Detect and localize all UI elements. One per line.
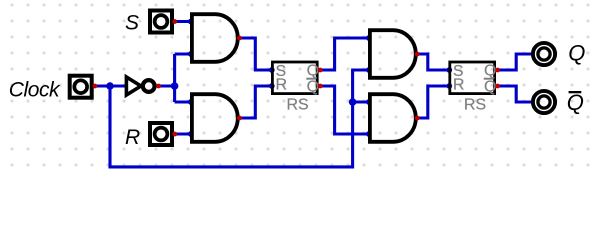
svg-text:Q: Q [484, 63, 496, 80]
and-gate U3 (master Q gating) [370, 30, 416, 78]
wire latch FF1 Qbar to gate U4 lower input [320, 86, 369, 134]
and-gate U1 (S gating) [192, 14, 238, 62]
input pin R [150, 123, 172, 145]
wire end dots at component inputs [188, 19, 452, 137]
input pin Clock [70, 76, 92, 98]
svg-text:Q: Q [567, 90, 584, 115]
latch FF1 (master RS) [272, 62, 319, 114]
wire gate U1 output to latch FF1 S input [239, 38, 271, 70]
wire inverter output to branch node [159, 84, 175, 87]
port dot S pin [172, 19, 177, 24]
input pin S [150, 11, 172, 33]
port dot FF1 Qbar [318, 84, 323, 89]
wire R pin to gate U2 lower input [175, 132, 192, 135]
junction node clock/rail [106, 82, 114, 90]
junction node inverted clock [171, 82, 179, 90]
port dot U2 output [237, 116, 242, 121]
inverter U5 (clock) [126, 77, 154, 95]
port dot R pin [172, 132, 177, 137]
port dot FF1 Q [318, 68, 323, 73]
svg-text:S: S [125, 11, 139, 34]
svg-text:R: R [453, 77, 465, 94]
wire inverted clock vertical branch [173, 54, 176, 102]
svg-text:Q: Q [568, 41, 585, 66]
port dot inverter output [156, 84, 161, 89]
wire inverted clock to gate U1 lower input [175, 52, 192, 55]
svg-text:Q: Q [307, 63, 319, 80]
wire gate U2 output to latch FF1 R input [239, 86, 271, 118]
output pin Q [533, 43, 555, 65]
wire latch FF1 Q to gate U3 upper input [320, 38, 369, 70]
wire latch FF2 Q to output pin Q [498, 54, 532, 70]
wire S pin to gate U1 upper input [175, 20, 192, 23]
port dot FF2 Qbar [495, 84, 500, 89]
svg-text:RS: RS [464, 97, 486, 114]
svg-text:R: R [276, 77, 288, 94]
port dot FF2 Q [495, 68, 500, 73]
svg-text:Q: Q [484, 79, 496, 96]
wire latch FF2 Qbar to output pin Qbar [498, 86, 532, 102]
port dot clock pin [93, 84, 98, 89]
wire gate U4 output to latch FF2 R input [417, 86, 448, 118]
port dot U3 output [415, 52, 420, 57]
and-gate U4 (master Qbar gating) [370, 94, 416, 142]
and-gate U2 (R gating) [192, 94, 238, 142]
svg-text:Q: Q [307, 79, 319, 96]
port dot U1 output [237, 36, 242, 41]
port dot U4 output [415, 116, 420, 121]
output pin Qbar [533, 91, 555, 113]
grid dots [0, 0, 595, 179]
latch FF2 (slave RS) [450, 62, 497, 114]
svg-text:Clock: Clock [9, 79, 61, 102]
wire rail branch to lower gate U4 top input [353, 100, 370, 103]
svg-text:R: R [125, 126, 140, 149]
wire Clock pin to inverter [95, 84, 126, 87]
svg-text:RS: RS [287, 97, 309, 114]
junction node rail/U4 [349, 98, 357, 106]
wire clock feedforward rail [110, 70, 370, 167]
wire inverted clock to gate U2 upper input [175, 100, 192, 103]
wire gate U3 output to latch FF2 S input [417, 54, 448, 70]
